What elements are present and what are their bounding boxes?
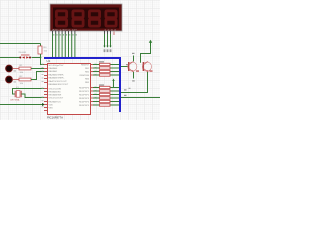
svg-text:OSC2/CLKOUT: OSC2/CLKOUT <box>49 97 64 99</box>
wire OSC2 loop <box>21 94 44 98</box>
svg-text:RD4/PSP4: RD4/PSP4 <box>79 102 90 104</box>
svg-text:RB3/PGM: RB3/PGM <box>80 75 90 77</box>
transistor Q2 <box>142 61 151 72</box>
svg-text:OSC1/CLKIN: OSC1/CLKIN <box>49 88 62 90</box>
svg-text:RD3/PSP3: RD3/PSP3 <box>79 98 90 100</box>
net labels under common wires <box>104 49 112 52</box>
resistor R0 <box>38 46 42 54</box>
MCU right pins <box>91 65 94 106</box>
resistor bank bottom leads <box>93 88 119 106</box>
wire bus to Q1 base <box>121 66 128 68</box>
resistor bank top leads <box>93 65 119 76</box>
svg-text:RA2/AN2/VREF-: RA2/AN2/VREF- <box>49 73 65 76</box>
svg-text:PIC16F877A: PIC16F877A <box>47 116 63 120</box>
svg-text:U1: U1 <box>47 59 51 63</box>
label Q2 <box>150 70 153 71</box>
digit 3 <box>89 11 99 26</box>
svg-text:RD5/PSP5: RD5/PSP5 <box>79 105 90 107</box>
wire display common stubs <box>105 34 111 47</box>
svg-text:RD2/PSP2: RD2/PSP2 <box>79 95 90 97</box>
display pin name text <box>52 28 118 31</box>
pin D1 to R1 <box>13 68 19 70</box>
digit 4 <box>106 11 116 26</box>
Q2 emitter wire to bus <box>121 72 148 93</box>
net label Q1 collector <box>132 53 135 54</box>
label R0 10k <box>44 47 48 52</box>
net label right wire <box>124 95 127 96</box>
label Q1 <box>136 70 139 71</box>
pin D2 to R2 <box>13 79 19 81</box>
wire VCC rail left <box>0 43 41 45</box>
wire bus to right edge <box>121 97 160 99</box>
junction node <box>40 57 42 59</box>
net labels on segment wires <box>53 34 76 36</box>
display segment pins <box>53 31 75 34</box>
svg-text:RA0/AN0: RA0/AN0 <box>49 67 59 70</box>
MCU left pins <box>44 65 47 111</box>
MCU pin name texts <box>49 65 69 110</box>
label RN bottom <box>99 84 104 85</box>
svg-text:RD0/PSP0: RD0/PSP0 <box>79 88 90 90</box>
svg-text:RE1/AN6/WR: RE1/AN6/WR <box>49 93 62 96</box>
svg-text:RA1/AN1: RA1/AN1 <box>49 70 59 73</box>
resistor R2 <box>19 78 31 81</box>
svg-text:RA3/AN3/VREF+: RA3/AN3/VREF+ <box>49 77 66 80</box>
label RN top <box>99 61 104 62</box>
LED/button D2 <box>6 76 13 83</box>
MCU U1 body <box>48 64 91 115</box>
power terminal <box>149 40 152 46</box>
wire segment lines display to bus <box>53 34 75 58</box>
bus <box>44 58 120 112</box>
svg-text:RD1/PSP1: RD1/PSP1 <box>79 91 90 93</box>
digit 1 <box>56 11 66 26</box>
wire bottom rail to pin <box>0 104 43 106</box>
svg-text:25.00M: 25.00M <box>19 52 26 54</box>
wire power to Q2 <box>141 46 151 63</box>
svg-text:RE2/AN7/CS: RE2/AN7/CS <box>49 100 62 103</box>
net label bus corner <box>129 88 131 89</box>
wire left to button <box>0 57 20 59</box>
svg-text:CRYSTAL: CRYSTAL <box>10 99 21 102</box>
MCU pin numbers <box>42 64 97 108</box>
display common pins <box>105 31 111 34</box>
resistor bank bottom <box>100 86 111 106</box>
Q1 collector stub <box>133 56 135 62</box>
net label Q1 base <box>126 64 129 65</box>
wire R2 jog to pin <box>31 72 44 80</box>
wire R1 to pin <box>31 68 44 70</box>
svg-text:RA5/AN4/SS/C2OUT: RA5/AN4/SS/C2OUT <box>49 83 69 86</box>
display unused pin <box>113 32 115 36</box>
svg-text:RE0/AN5/RD: RE0/AN5/RD <box>49 90 62 93</box>
wire OSC1 loop <box>13 89 45 95</box>
svg-text:RB0/INT: RB0/INT <box>81 65 90 67</box>
button <box>19 55 31 59</box>
wire R0 to MCLR pin <box>41 54 45 65</box>
svg-text:RA4/T0CKI/C1OUT: RA4/T0CKI/C1OUT <box>49 80 68 83</box>
7-segment display DS1 <box>50 4 122 31</box>
svg-text:MCLR/Vpp/THV: MCLR/Vpp/THV <box>49 65 65 67</box>
svg-text:VSS: VSS <box>49 107 54 109</box>
wire button to R0 node <box>32 57 41 59</box>
MCU right pin name texts <box>79 65 90 108</box>
LED/button D1 <box>6 65 13 72</box>
resistor bank top <box>100 63 111 76</box>
power tap arrow <box>112 79 114 82</box>
digit 2 <box>73 11 83 26</box>
resistor R1 <box>19 67 31 70</box>
transistor Q1 <box>128 61 137 72</box>
net label e2 <box>124 89 127 90</box>
crystal X1 <box>15 91 21 98</box>
wire to resistor R0 <box>40 44 42 47</box>
net label Q1 emitter <box>132 80 135 81</box>
Q1 emitter stub <box>133 72 135 79</box>
svg-text:VDD: VDD <box>49 104 54 106</box>
terminal arrow <box>42 103 45 106</box>
